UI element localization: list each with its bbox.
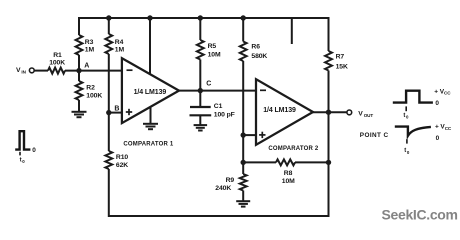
svg-text:15K: 15K [336,63,348,70]
svg-text:COMPARATOR 1: COMPARATOR 1 [123,142,174,148]
wire top supply rail [79,18,329,51]
comparator 1 plus input sign [126,111,132,113]
resistor R10 62K [105,151,112,169]
VOUT waveform t0 tick [405,106,407,111]
node VIN input terminal [29,68,34,73]
svg-text:240K: 240K [215,185,231,192]
resistor R4 1M [105,34,112,54]
resistor R6 580K [240,42,247,62]
wire comparator 1 ground pin [150,98,152,123]
wire R9 to ground [242,191,244,201]
svg-text:CC: CC [445,126,452,131]
svg-text:62K: 62K [116,162,128,169]
svg-text:R1: R1 [53,52,62,59]
svg-text:10M: 10M [208,51,221,58]
wire R5 to node C [199,60,201,91]
input pulse t0 tick [19,152,21,156]
svg-text:1/4 LM139: 1/4 LM139 [263,107,296,114]
wire comparator 2 output to VOUT terminal [310,111,347,113]
svg-text:V: V [358,111,363,118]
resistor R1 100K [48,68,65,74]
wire node C down to C1 [199,91,201,107]
wire R9 junction to R8 [243,161,276,163]
svg-text:V: V [16,67,21,74]
svg-text:R9: R9 [226,177,235,184]
svg-text:CC: CC [444,91,451,96]
wire rail to R4 [108,18,110,34]
point C waveform t0 tick [406,139,408,143]
svg-text:R10: R10 [116,154,128,161]
wire plus node down to R9 junction [242,135,244,162]
op-amp U2 comparator 2 1/4 LM139 [256,79,313,145]
input pulse waveform [15,131,30,149]
node R5 rail junction [198,15,203,20]
comparator 2 minus input sign [260,89,266,91]
node R6 rail junction [241,15,246,20]
wire comparator 1 output to node C to comparator 2 minus input [176,90,258,92]
svg-text:0: 0 [436,135,440,142]
node R4 rail junction [106,15,111,20]
resistor R9 240K [240,174,247,191]
svg-text:R8: R8 [284,170,293,177]
node VOUT output terminal [347,110,352,115]
svg-text:580K: 580K [251,53,267,60]
node comparator 1 V+ rail junction [147,15,152,20]
resistor R8 10M feedback [276,159,295,165]
VOUT pulse waveform [393,91,433,103]
node A [76,68,81,73]
svg-text:R6: R6 [251,44,260,51]
svg-text:C: C [206,80,211,87]
svg-text:100K: 100K [49,59,65,66]
wire R6 down to comparator 2 plus node [242,61,244,135]
node VIN input wire [34,70,48,72]
svg-text:100 pF: 100 pF [214,111,235,118]
wire rail to R5 [199,18,201,40]
resistor R5 10M [197,40,204,60]
svg-text:A: A [84,62,89,69]
svg-text:COMPARATOR 2: COMPARATOR 2 [268,146,319,152]
wire R8 to output line [295,161,329,163]
node C [198,88,203,93]
op-amp U1 comparator 1 1/4 LM139 [122,58,179,123]
node VOUT junction [326,110,331,115]
svg-text:R3: R3 [85,39,94,46]
wire node A to R2 [78,71,80,81]
resistor R7 15K [325,51,332,71]
capacitor C1 100 pF [190,107,212,115]
svg-text:R2: R2 [86,85,95,92]
svg-text:C1: C1 [214,103,223,110]
wire R3 to node A [78,55,80,71]
wire plus node to comparator 2 plus input [243,134,258,136]
svg-text:POINT C: POINT C [360,132,389,139]
wire rail to R6 [242,18,244,42]
svg-text:SeekIC.com: SeekIC.com [382,206,458,222]
ground below C1 [194,125,208,130]
ground below R2 [72,112,87,117]
svg-text:B: B [114,106,119,113]
svg-text:1/4 LM139: 1/4 LM139 [134,89,167,96]
wire R9 junction to R9 [242,162,244,174]
wire comparator 1 V+ pin from rail [149,18,151,78]
svg-text:IN: IN [21,69,26,74]
wire bottom rail [109,71,329,217]
node R8 output junction [326,160,331,165]
comparator 1 minus input sign [127,69,133,71]
svg-text:0: 0 [32,147,36,154]
svg-text:R4: R4 [115,39,124,46]
wire R2 to ground [78,100,80,111]
svg-text:R7: R7 [336,54,345,61]
svg-text:100K: 100K [86,93,102,100]
wire C1 to ground [199,115,201,124]
point C waveform [395,127,431,136]
svg-text:0: 0 [435,100,439,107]
resistor R2 100K [76,81,83,100]
svg-text:1M: 1M [115,46,125,53]
wire comparator 2 V+ stub from rail [291,18,293,44]
ground below comparator 1 [143,124,158,129]
resistor R3 1M [76,35,83,55]
svg-text:R5: R5 [208,43,217,50]
node B [106,110,111,115]
wire R4 to node B [108,54,110,113]
wire node B to comparator 1 plus input [109,112,124,114]
node comparator 2 plus input junction [241,132,246,137]
node R9 R8 junction [241,160,246,165]
ground below R9 [236,201,250,206]
wire node B down to R10 [108,113,110,151]
comparator 2 plus input sign [259,134,265,136]
wire R1 to node A to comparator 1 minus input [65,70,124,72]
svg-text:10M: 10M [282,178,295,185]
svg-text:1M: 1M [85,46,95,53]
svg-text:OUT: OUT [364,113,374,118]
